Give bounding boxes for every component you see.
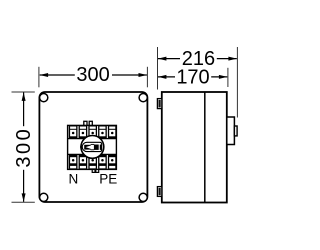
side view lid split line: [204, 92, 206, 203]
svg-text:170: 170: [176, 66, 209, 88]
bottom terminal block 3: [88, 155, 97, 169]
corner screw top-left: [40, 94, 48, 102]
side view hinge block: [227, 117, 235, 145]
dimension 300 top: dimension line: [40, 74, 75, 76]
handle slit: [99, 144, 100, 151]
top terminal block 2: [79, 126, 88, 139]
top terminal block 5: [108, 126, 117, 139]
bottom terminal block 2: [79, 155, 88, 169]
dimension 300 left: extension lines: [12, 91, 35, 93]
device body: [68, 125, 117, 169]
handle grip black segment with notch: [84, 145, 91, 150]
front view enclosure outline: [39, 92, 147, 202]
svg-text:300: 300: [13, 127, 35, 168]
corner screw bottom-right: [139, 193, 147, 201]
dimension 170: extension line right: [227, 68, 229, 87]
dimension 300 top: extension lines: [38, 67, 40, 88]
corner screw bottom-left: [40, 193, 48, 201]
handle right black block: [94, 145, 102, 150]
handle neck lines: [91, 143, 95, 145]
bottom terminal block 5: [108, 155, 117, 169]
dimension 216: extension lines: [157, 47, 159, 90]
top terminal block 4: [98, 126, 107, 139]
svg-text:N: N: [69, 171, 79, 186]
side view hinge bump: [234, 126, 237, 136]
device mounting clips top: [84, 121, 87, 125]
bottom terminal block 1: [69, 155, 78, 169]
dimension 300 left: dimension line: [23, 93, 25, 127]
terminal row separators: [68, 138, 117, 140]
handle lever outline: [82, 142, 101, 151]
corner screw top-right: [139, 94, 147, 102]
bottom terminal block 4: [98, 155, 107, 169]
svg-text:300: 300: [76, 64, 109, 86]
rotary handle circle: [81, 136, 104, 159]
svg-text:PE: PE: [99, 172, 117, 187]
device tabs bottom: [92, 169, 95, 172]
dimension 216: dimension line: [158, 58, 180, 60]
switch device group: [68, 121, 117, 172]
top terminal block 1: [69, 126, 78, 139]
top terminal block 3: [88, 126, 97, 139]
side view body: [162, 92, 227, 203]
handle position indicator: [80, 146, 82, 149]
side view wall bracket upper: [157, 99, 161, 109]
side view wall bracket lower: [157, 187, 161, 197]
dimension 170: dimension line: [158, 76, 175, 78]
